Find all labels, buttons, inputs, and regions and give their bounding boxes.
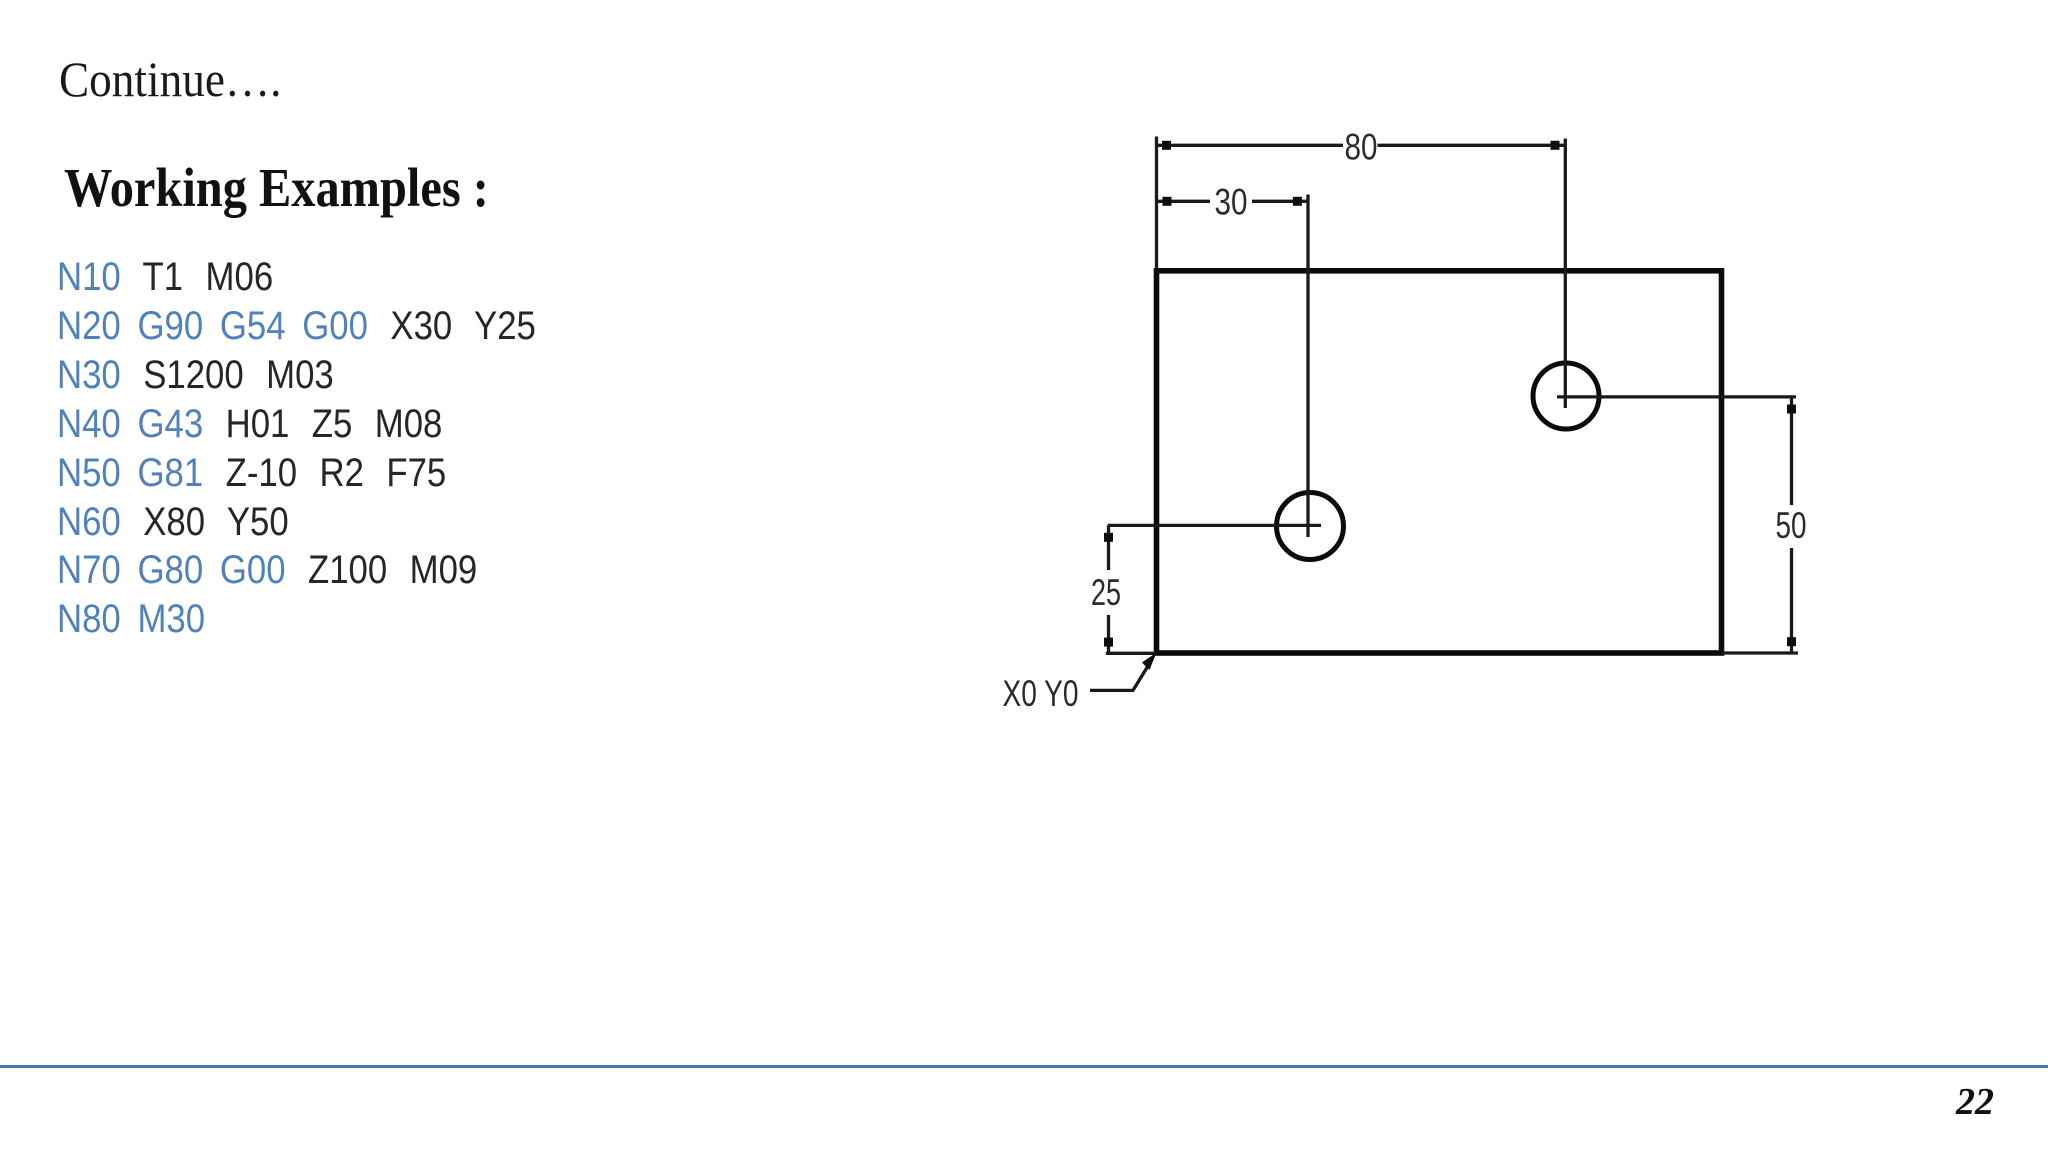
G-code listing [57,253,536,644]
section heading [64,156,489,219]
dim line 50 vertical [1790,397,1793,653]
dim line 80 [1157,144,1566,147]
svg-text:X0 Y0: X0 Y0 [1003,673,1079,714]
svg-text:50: 50 [1776,505,1807,546]
svg-text:80: 80 [1345,127,1378,168]
page number [1956,1080,1994,1124]
tick dim25 top [1104,533,1113,542]
extension line bottom left (Y0) [1106,652,1157,655]
extension line bottom right [1722,651,1799,654]
extension line from dim 30 down to hole H1 center [1306,195,1309,538]
leader arrowhead at X0 Y0 corner [1142,653,1157,671]
dim line 25 vertical [1107,525,1110,653]
part outline rectangle [1157,271,1722,653]
tick dim30 left [1163,197,1172,206]
svg-text:30: 30 [1215,182,1248,223]
footer divider line [0,1065,2048,1068]
tick dim30 right [1293,197,1302,206]
tick dim80 left [1162,141,1171,150]
tick dim25 bottom [1104,638,1113,647]
dim line 30 [1157,200,1309,203]
hole H2 (X80 Y50) [1533,363,1599,429]
tick dim50 top [1787,405,1796,414]
hole H1 crosshair horizontal / 25 extension [1108,524,1321,527]
slide title [59,50,281,108]
extension line left (datum X0) [1155,137,1158,269]
hole H2 crosshair horizontal / 50 extension [1557,395,1796,398]
hole H1 (X30 Y25) [1277,493,1344,560]
tick dim80 right [1551,141,1560,150]
svg-text:25: 25 [1091,572,1121,613]
leader line X0 Y0 [1090,661,1151,690]
tick dim50 bottom [1787,637,1796,646]
extension line from dim 80 down to hole H2 center [1564,139,1567,409]
